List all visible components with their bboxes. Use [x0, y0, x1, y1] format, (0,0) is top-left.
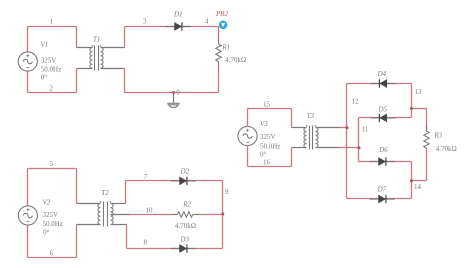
- junction R2-bus: [221, 213, 224, 216]
- wire node10 left: [130, 214, 172, 216]
- svg-text:T2: T2: [101, 189, 109, 197]
- diode D4: [371, 79, 397, 87]
- svg-text:4: 4: [205, 18, 209, 26]
- svg-text:D7: D7: [377, 186, 387, 194]
- svg-text:12: 12: [352, 98, 360, 106]
- wire R2 to bus: [199, 214, 223, 216]
- diode D2: [171, 177, 197, 185]
- svg-text:325V: 325V: [41, 57, 57, 65]
- wire T3 sec top to bus12: [340, 127, 347, 129]
- svg-text:5: 5: [50, 160, 54, 168]
- svg-text:325V: 325V: [260, 133, 276, 141]
- svg-text:3: 3: [143, 18, 147, 26]
- voltage source V1: [18, 52, 37, 71]
- wire V2 bottom riser: [27, 226, 29, 258]
- wire node13 branch: [412, 108, 427, 110]
- wire V1 top riser: [27, 27, 29, 52]
- voltage source V2: [18, 206, 37, 225]
- diode D3: [171, 244, 197, 252]
- wire node11 bus: [358, 118, 360, 162]
- junction node14: [410, 179, 413, 182]
- wire D7 row: [347, 198, 412, 200]
- pin T3 secondary bottom: [316, 147, 341, 149]
- resistor R3: [424, 126, 429, 153]
- svg-text:50.0Hz: 50.0Hz: [43, 220, 63, 228]
- svg-text:4.70kΩ: 4.70kΩ: [225, 56, 246, 64]
- wire node1 top: [28, 26, 77, 28]
- transformer T3: [304, 126, 318, 150]
- svg-text:R3: R3: [433, 131, 442, 139]
- wire D5 row: [359, 117, 412, 119]
- svg-text:R2: R2: [182, 200, 191, 208]
- ground: [167, 93, 179, 108]
- wire T3 primary bottom riser: [291, 148, 293, 167]
- pin T3 primary bottom: [292, 147, 307, 149]
- wire T1 secondary top riser: [124, 27, 126, 48]
- pin T2 secondary top: [111, 203, 126, 205]
- svg-text:D5: D5: [378, 106, 388, 114]
- svg-text:V2: V2: [43, 199, 51, 207]
- svg-text:4.70kΩ: 4.70kΩ: [175, 222, 196, 230]
- svg-text:10: 10: [146, 207, 154, 215]
- svg-text:7: 7: [144, 173, 148, 181]
- wire T2 primary bottom riser: [76, 225, 78, 258]
- pin T2 primary top: [77, 203, 101, 205]
- wire node7: [126, 180, 223, 182]
- svg-text:D4: D4: [377, 70, 387, 78]
- wire T1 primary top riser: [76, 27, 78, 48]
- wire V2 top riser: [27, 169, 29, 206]
- pin T3 primary top: [292, 127, 307, 129]
- svg-text:16: 16: [263, 159, 271, 167]
- svg-text:13: 13: [415, 88, 423, 96]
- svg-text:2: 2: [50, 85, 54, 93]
- probe PR2: [219, 21, 228, 30]
- wire R3 bottom feed: [426, 149, 428, 181]
- voltage source V3: [238, 126, 257, 145]
- wire node16 bottom: [248, 166, 292, 168]
- wire node14 vert: [411, 162, 413, 199]
- svg-text:15: 15: [263, 101, 271, 109]
- svg-text:1: 1: [50, 18, 54, 26]
- wire T2 primary top riser: [76, 169, 78, 204]
- svg-text:8: 8: [144, 239, 148, 247]
- svg-text:14: 14: [414, 183, 422, 191]
- wire node8: [127, 248, 223, 250]
- wire D6 row: [359, 161, 412, 163]
- svg-text:50.0Hz: 50.0Hz: [260, 143, 280, 151]
- wire node2 bottom: [28, 92, 77, 94]
- wire V3 top riser: [247, 109, 249, 127]
- svg-text:T3: T3: [307, 112, 315, 120]
- svg-text:0°: 0°: [41, 74, 48, 82]
- svg-text:D1: D1: [173, 11, 183, 19]
- wire R1 to bottom rail: [218, 66, 220, 93]
- wire V1 bottom riser: [27, 72, 29, 93]
- wire T2 sec bottom riser: [126, 225, 128, 249]
- svg-text:0: 0: [176, 89, 180, 97]
- resistor R2: [171, 212, 198, 217]
- svg-text:0°: 0°: [260, 151, 267, 159]
- wire T2 sec top riser: [125, 181, 127, 204]
- diode D1: [166, 22, 192, 30]
- junction T3-bus12: [346, 126, 349, 129]
- wire node13 vert: [411, 84, 413, 118]
- pin T2 center tap: [111, 214, 130, 216]
- wire D4 row: [347, 83, 412, 85]
- wire node4 to R1: [218, 27, 220, 41]
- wire T1 primary bottom riser: [76, 69, 78, 93]
- junction node13: [410, 107, 413, 110]
- wire bottom rail secondary: [125, 92, 219, 94]
- transformer T2: [98, 202, 113, 227]
- diode D7: [370, 195, 396, 203]
- svg-text:9: 9: [225, 188, 229, 196]
- wire R3 top feed: [426, 109, 428, 131]
- pin T2 primary bottom: [77, 224, 101, 226]
- svg-text:50.0Hz: 50.0Hz: [41, 66, 61, 74]
- svg-text:325V: 325V: [43, 211, 59, 219]
- wire node3 top: [125, 26, 219, 28]
- svg-text:T1: T1: [93, 36, 100, 44]
- svg-text:D6: D6: [378, 146, 388, 154]
- pin T2 secondary bottom: [111, 224, 127, 226]
- wire node15 top: [248, 108, 292, 110]
- transformer T1: [90, 46, 103, 71]
- pin T3 secondary top: [316, 127, 341, 129]
- svg-text:D3: D3: [180, 235, 190, 243]
- svg-text:D2: D2: [180, 168, 190, 176]
- svg-text:V3: V3: [260, 120, 268, 128]
- wire node5 top: [28, 168, 77, 170]
- svg-text:V1: V1: [41, 41, 49, 49]
- svg-text:R1: R1: [221, 44, 230, 52]
- wire T3 sec bottom to bus11: [340, 147, 359, 149]
- diode D5: [371, 114, 397, 122]
- svg-text:6: 6: [50, 250, 54, 258]
- wire node6 bottom: [28, 257, 77, 259]
- pin T1 secondary top: [101, 47, 125, 49]
- pin T1 secondary bottom: [101, 68, 125, 70]
- svg-text:11: 11: [362, 126, 369, 134]
- wire node14 branch: [412, 180, 427, 182]
- svg-text:0°: 0°: [43, 229, 50, 237]
- svg-text:4.70kΩ: 4.70kΩ: [436, 145, 457, 153]
- resistor R1: [216, 39, 221, 67]
- wire T1 secondary bottom riser: [124, 69, 126, 93]
- wire V3 bottom riser: [247, 146, 249, 167]
- svg-text:PR2: PR2: [215, 10, 229, 18]
- pin T1 primary bottom: [77, 68, 93, 70]
- diode D6: [370, 157, 396, 165]
- junction T3-bus11: [358, 146, 361, 149]
- pin T1 primary top: [77, 47, 93, 49]
- wire node12 bus: [346, 84, 348, 199]
- wire T3 primary top riser: [291, 109, 293, 128]
- wire node9 bus: [222, 181, 224, 249]
